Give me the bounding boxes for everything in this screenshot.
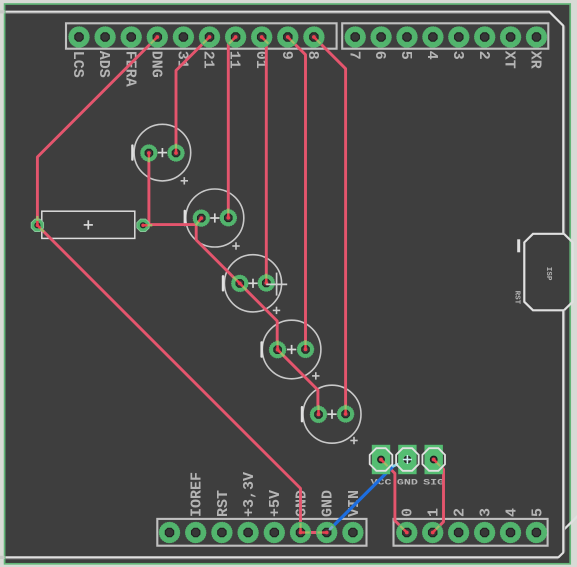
svg-text:DNG: DNG [147, 51, 164, 78]
svg-text:GND: GND [320, 490, 337, 517]
svg-text:+3,3V: +3,3V [241, 472, 258, 517]
svg-text:RST: RST [513, 291, 521, 305]
svg-text:ADS: ADS [95, 51, 112, 78]
svg-text:GND: GND [397, 479, 418, 488]
svg-text:9: 9 [278, 51, 295, 60]
svg-text:7: 7 [345, 51, 362, 60]
svg-text:5: 5 [397, 51, 414, 60]
svg-text:2: 2 [475, 51, 492, 60]
svg-text:XT: XT [501, 51, 518, 69]
svg-text:1: 1 [426, 508, 443, 517]
svg-text:RST: RST [215, 490, 232, 517]
svg-text:21: 21 [200, 51, 217, 69]
svg-text:0: 0 [400, 508, 417, 517]
svg-text:IOREF: IOREF [189, 472, 206, 517]
svg-text:6: 6 [371, 51, 388, 60]
svg-text:XR: XR [527, 51, 544, 69]
svg-text:SIG: SIG [423, 479, 444, 488]
svg-text:4: 4 [503, 508, 520, 517]
svg-text:LCS: LCS [69, 51, 86, 78]
svg-text:4: 4 [423, 51, 440, 60]
svg-text:3: 3 [478, 508, 495, 517]
svg-text:5: 5 [529, 508, 546, 517]
svg-text:3: 3 [449, 51, 466, 60]
svg-text:2: 2 [452, 508, 469, 517]
svg-text:ISP: ISP [544, 267, 552, 281]
svg-text:+5V: +5V [267, 490, 284, 517]
